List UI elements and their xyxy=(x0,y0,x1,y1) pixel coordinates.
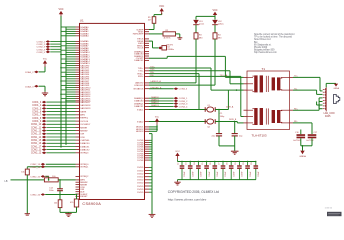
junction TD- net xyxy=(236,89,238,91)
wire bypass bottom rail xyxy=(178,179,256,181)
resistor R8 10k vertical xyxy=(58,200,62,208)
svg-text:C3: C3 xyxy=(186,163,188,165)
ground crystal caps xyxy=(231,150,239,152)
transformer internal left wires xyxy=(247,77,290,123)
svg-text:100nF: 100nF xyxy=(192,171,194,177)
chassis ground arrow xyxy=(334,84,338,87)
wire R11 to IC pin xyxy=(58,179,75,181)
wire C16 stub up xyxy=(300,130,302,135)
svg-text:DVDD: DVDD xyxy=(137,192,144,194)
wire VCC to LED rails xyxy=(214,15,216,16)
wire xtal2 to load cap C13 xyxy=(234,122,236,134)
svg-text:DVDD: DVDD xyxy=(137,167,144,169)
wire branch down to C14 xyxy=(59,180,61,189)
junction R11 / C14 branch xyxy=(59,179,61,181)
svg-text:100nF: 100nF xyxy=(233,171,235,177)
svg-text:100nF: 100nF xyxy=(225,171,227,177)
svg-text:CON1_16: CON1_16 xyxy=(31,143,42,145)
svg-text:DVDD: DVDD xyxy=(137,189,144,191)
svg-text:SDATA4: SDATA4 xyxy=(80,35,89,38)
resistor R3 680 xyxy=(194,33,198,39)
wire DVSS pins to ground bus xyxy=(149,140,152,192)
svg-text:C8: C8 xyxy=(227,163,229,165)
RJ45 pin stubs xyxy=(323,89,325,108)
capacitor C16 xyxy=(297,134,306,136)
svg-text:100nF: 100nF xyxy=(201,171,203,177)
svg-text:4n7/2kV: 4n7/2kV xyxy=(306,140,314,142)
svg-text:DMACK1: DMACK1 xyxy=(80,145,90,148)
wire bypass top rail xyxy=(178,161,256,163)
svg-text:INTRQ3: INTRQ3 xyxy=(80,153,89,155)
svg-text:CS8900A: CS8900A xyxy=(82,202,101,206)
crystal Q2 lower xyxy=(204,119,206,124)
capacitor C11 100n bypass xyxy=(255,162,257,166)
wire R1 to VCC xyxy=(153,15,155,17)
transformer pin stubs left xyxy=(244,77,248,123)
svg-text:CON1_4: CON1_4 xyxy=(32,105,42,107)
svg-text:100nF: 100nF xyxy=(242,171,244,177)
wire xtal1 row right to TD- net riser xyxy=(215,109,228,111)
svg-text:IOCS16: IOCS16 xyxy=(80,121,89,123)
svg-text:VCC: VCC xyxy=(159,5,164,8)
svg-text:RJ45: RJ45 xyxy=(325,116,331,118)
note text block xyxy=(254,33,295,54)
svg-text:CON1_9: CON1_9 xyxy=(32,121,42,123)
svg-text:CON1_11: CON1_11 xyxy=(31,127,42,129)
wire XTAL1 to crystal xyxy=(149,109,207,111)
wire vertical bus B xyxy=(65,27,67,145)
svg-text:DMARQ0: DMARQ0 xyxy=(134,97,144,100)
svg-text:100nF: 100nF xyxy=(184,171,186,177)
capacitor C5 100n bypass xyxy=(206,162,208,166)
svg-text:C4: C4 xyxy=(194,163,196,165)
svg-text:C6: C6 xyxy=(210,163,212,165)
svg-text:HWSLEEP: HWSLEEP xyxy=(133,34,144,36)
svg-text:LINKLED: LINKLED xyxy=(134,85,144,87)
wire CON2_16 to IC RESET xyxy=(45,194,75,196)
svg-text:http://www.olimex.com: http://www.olimex.com xyxy=(254,51,277,54)
svg-text:VCC: VCC xyxy=(212,9,217,12)
svg-text:RXD-: RXD- xyxy=(138,76,144,78)
svg-text:TLA-6T103: TLA-6T103 xyxy=(252,133,267,137)
svg-text:SBHE: SBHE xyxy=(80,111,86,113)
svg-text:CON1_10: CON1_10 xyxy=(31,124,42,126)
wire ELCS bridge to transformer pin1 xyxy=(149,57,167,59)
wire RXD+ down to crystal filter xyxy=(149,73,199,75)
RJ45 remaining pin wires xyxy=(319,101,322,103)
svg-text:U1: U1 xyxy=(80,19,84,23)
svg-text:INTRQ1: INTRQ1 xyxy=(80,167,89,169)
svg-text:C7: C7 xyxy=(218,163,220,165)
junction R7 xyxy=(76,194,78,196)
capacitor C10 100n bypass xyxy=(247,162,249,166)
wire RD- to C17 xyxy=(293,122,312,124)
svg-text:DMARQ1: DMARQ1 xyxy=(151,99,159,102)
wire LINKLED net to LED2 xyxy=(149,84,215,86)
power VCC for LEDs xyxy=(213,12,217,15)
wire RD+ to RJ45 xyxy=(293,109,319,111)
svg-text:DVDD: DVDD xyxy=(137,170,144,172)
svg-text:Bulgaria,tel/fax+359: Bulgaria,tel/fax+359 xyxy=(254,49,275,52)
svg-text:DVDD: DVDD xyxy=(137,180,144,182)
wire R8 to ground rail xyxy=(59,208,61,213)
svg-text:4n7/2kV: 4n7/2kV xyxy=(293,140,301,142)
svg-text:C5: C5 xyxy=(202,163,204,165)
resistor R4 680 xyxy=(213,33,217,39)
svg-text:yellow: yellow xyxy=(218,23,224,25)
svg-text:CON3_4: CON3_4 xyxy=(179,106,188,108)
wire caps to GNDA xyxy=(300,138,302,146)
power VCC bypass rail xyxy=(175,153,179,156)
wire load caps to common ground xyxy=(218,136,220,146)
junction CON2_15 / LB xyxy=(48,179,50,181)
svg-text:http://www.olimex.com/dev: http://www.olimex.com/dev xyxy=(168,198,207,202)
svg-text:DVSS: DVSS xyxy=(137,160,143,162)
svg-text:Note:Olimex Ltd: Note:Olimex Ltd xyxy=(254,38,271,41)
svg-text:green: green xyxy=(199,22,205,25)
wires IC mid-left data/address pins to buses xyxy=(61,41,76,100)
svg-text:CON2_5: CON2_5 xyxy=(36,52,45,54)
wire CON2_13 to IC xyxy=(46,163,76,165)
capacitor C2 100n bypass xyxy=(181,162,183,166)
svg-text:DVDD: DVDD xyxy=(137,183,144,185)
svg-text:LANLED_A: LANLED_A xyxy=(151,80,162,83)
svg-text:TP to be looked at time. The d: TP to be looked at time. The discontd xyxy=(254,36,293,39)
capacitor C14 100n xyxy=(57,188,63,190)
svg-text:VCC: VCC xyxy=(155,116,160,118)
svg-text:C11: C11 xyxy=(251,162,253,165)
svg-text:ELCS: ELCS xyxy=(138,48,144,50)
capacitor C17 xyxy=(308,134,317,136)
svg-text:20MHz: 20MHz xyxy=(167,49,174,51)
svg-text:CON1_13: CON1_13 xyxy=(31,134,42,136)
svg-text:DVDD: DVDD xyxy=(137,177,144,179)
svg-text:CON1_3: CON1_3 xyxy=(32,102,42,104)
wire R6 to ground xyxy=(26,175,28,214)
svg-text:RXD+: RXD+ xyxy=(137,73,144,75)
svg-text:VCC: VCC xyxy=(43,58,48,60)
ground lower-left rail xyxy=(68,212,70,213)
LED LD1 green xyxy=(193,20,199,25)
transformer T1 secondary section windings xyxy=(254,108,257,125)
svg-text:MEMR: MEMR xyxy=(80,127,87,129)
wire LANLED net to LED1 xyxy=(149,82,196,84)
resistor R6 10k vertical xyxy=(26,167,28,169)
svg-text:DMARQ0: DMARQ0 xyxy=(151,96,159,99)
svg-text:DMACK1: DMACK1 xyxy=(134,59,144,62)
svg-text:DMACK1: DMACK1 xyxy=(134,105,144,108)
svg-text:CON1_6: CON1_6 xyxy=(32,112,42,114)
svg-text:CON1_5: CON1_5 xyxy=(32,108,42,110)
svg-text:shhh ltd: shhh ltd xyxy=(325,206,332,209)
svg-text:DVDD: DVDD xyxy=(137,186,144,188)
resistor R1 4k7 pull-up xyxy=(152,17,156,24)
junction AVDD xyxy=(156,126,158,128)
IC right pin stubs xyxy=(145,30,150,193)
svg-text:100nF: 100nF xyxy=(250,171,252,177)
svg-text:CON1_15: CON1_15 xyxy=(31,140,42,142)
svg-text:CON1_7: CON1_7 xyxy=(32,115,42,117)
wire R7 top xyxy=(76,195,78,200)
svg-text:DMARQ1: DMARQ1 xyxy=(134,102,144,105)
wire LD1 to R3 xyxy=(195,25,197,33)
ground at R2 xyxy=(177,37,182,39)
transformer T1 primary section windings xyxy=(254,75,257,92)
svg-text:4k7/1%: 4k7/1% xyxy=(164,38,171,40)
svg-text:SADDR17: SADDR17 xyxy=(80,101,91,104)
wire LD2 to R4 xyxy=(214,25,216,33)
svg-text:CON2_12: CON2_12 xyxy=(31,153,42,155)
svg-text:XTAL2: XTAL2 xyxy=(137,120,144,123)
svg-text:CON3_5: CON3_5 xyxy=(179,89,188,91)
ground under R6 xyxy=(25,213,30,215)
oscillator X2 20MHz xyxy=(159,47,162,50)
wire CON2_14 to IC xyxy=(27,166,75,168)
svg-text:CON2_16: CON2_16 xyxy=(30,195,41,197)
junction xtal1 load cap xyxy=(218,109,220,111)
capacitor C3 100n bypass xyxy=(189,162,191,166)
resistor R11 100 horizontal xyxy=(44,178,58,182)
svg-text:DMACK2: DMACK2 xyxy=(80,148,90,151)
svg-text:DMACK0: DMACK0 xyxy=(80,142,90,145)
svg-text:C10: C10 xyxy=(243,162,245,165)
svg-text:IOR: IOR xyxy=(80,134,84,136)
svg-text:GNDA: GNDA xyxy=(299,155,306,158)
wire TD+ to RJ45 xyxy=(293,76,320,78)
svg-text:Note:Re correct torroid of the: Note:Re correct torroid of the transform… xyxy=(254,33,295,36)
svg-text:VCC: VCC xyxy=(175,151,180,153)
svg-text:COAX_2: COAX_2 xyxy=(25,71,34,74)
svg-text:100nF: 100nF xyxy=(258,171,260,177)
wires IC top-left pins to buses xyxy=(61,27,76,36)
IC left pin names xyxy=(80,26,91,198)
wire VCC stem down to bus xyxy=(60,16,62,148)
ground symbol right of IC xyxy=(149,213,156,215)
capacitor C12 22p xyxy=(216,133,222,135)
svg-text:C9: C9 xyxy=(235,163,237,165)
wire AVSS row to ground bus xyxy=(149,133,152,135)
svg-text:GNDA: GNDA xyxy=(333,87,339,90)
junction dots on buses in flag zone xyxy=(60,101,67,141)
capacitor C8 100n bypass xyxy=(230,162,232,166)
svg-text:CON3_1: CON3_1 xyxy=(179,98,188,100)
capacitor C4 100n bypass xyxy=(197,162,199,166)
svg-text:24R9_A: 24R9_A xyxy=(226,105,234,108)
wire R4 down to LINKLED net xyxy=(214,39,216,85)
LED LD2 yellow xyxy=(212,20,218,25)
svg-text:LB: LB xyxy=(5,180,8,183)
svg-text:DMARQ3: DMARQ3 xyxy=(151,104,159,107)
wire ground bus right of IC xyxy=(151,134,153,215)
wire R3 down to LANLED net xyxy=(195,39,197,83)
svg-text:DMARQ2: DMARQ2 xyxy=(151,101,159,104)
wire XTAL2 to crystal xyxy=(149,121,207,123)
wire RXD- to transformer center tap 2 xyxy=(149,75,241,77)
wires DMA group with CON3 flags xyxy=(149,97,174,99)
svg-text:CON1_17: CON1_17 xyxy=(31,146,42,148)
svg-text:SADDR18: SADDR18 xyxy=(80,104,91,107)
IC U1 CS8900A body xyxy=(80,23,145,199)
svg-text:EECFG: EECFG xyxy=(167,45,174,47)
junction C14 / CON2_16 xyxy=(59,194,61,196)
svg-text:AVDD3: AVDD3 xyxy=(136,130,144,133)
wire R7 bottom to ground rail xyxy=(76,207,78,212)
wire TD- to RJ45 xyxy=(293,89,317,91)
wire CON2_15 down to LB net xyxy=(45,175,48,177)
svg-text:TXO+_A: TXO+_A xyxy=(220,74,228,77)
svg-text:CON3_2: CON3_2 xyxy=(179,101,188,103)
RJ45 connector coil pins xyxy=(324,87,327,111)
capacitor C9 100n bypass xyxy=(238,162,240,166)
svg-text:CON2_11: CON2_11 xyxy=(31,150,42,152)
junction xtal2 load cap xyxy=(234,121,236,123)
svg-text:RESET: RESET xyxy=(80,196,88,198)
watermark dark stamp xyxy=(327,212,342,216)
transformer pin stubs right xyxy=(290,77,294,123)
svg-text:100nF: 100nF xyxy=(209,171,211,177)
junction dots on buses xyxy=(60,41,67,102)
svg-text:XTAL1: XTAL1 xyxy=(137,108,144,111)
RJ45 jack icon xyxy=(334,94,340,103)
svg-text:COPYRIGHTED 2005, OLIMEX Ltd: COPYRIGHTED 2005, OLIMEX Ltd xyxy=(168,190,219,194)
svg-text:CON3_3: CON3_3 xyxy=(179,104,188,106)
wire TXD- to transformer center tap xyxy=(149,70,230,72)
svg-text:CON2_14: CON2_14 xyxy=(30,167,41,169)
svg-text:DMACK0: DMACK0 xyxy=(134,100,144,103)
svg-text:CON1_8: CON1_8 xyxy=(32,118,42,120)
ground GNDA arrow xyxy=(300,151,304,155)
svg-text:CON2_15: CON2_15 xyxy=(30,176,41,178)
svg-text:COAX_3: COAX_3 xyxy=(25,85,34,88)
svg-text:CON1_12: CON1_12 xyxy=(31,131,42,133)
svg-text:INTRQ2: INTRQ2 xyxy=(80,176,89,178)
svg-text:CHIPSEL: CHIPSEL xyxy=(80,140,90,142)
wire BSTATUS with flag xyxy=(149,88,174,90)
wire RJ45 shield to chassis xyxy=(325,83,327,87)
power VCC top-left xyxy=(59,11,63,14)
svg-text:T1: T1 xyxy=(262,67,266,71)
wire EESK to X2 xyxy=(149,40,153,42)
ground for bypass rail xyxy=(177,180,179,181)
capacitor C6 100n bypass xyxy=(214,162,216,166)
wire TXD+ to transformer pin3 xyxy=(149,67,211,69)
svg-text:DVDD: DVDD xyxy=(137,173,144,175)
svg-text:TXD+: TXD+ xyxy=(138,68,144,70)
transformer T1 box xyxy=(247,71,290,130)
wire ground rail lower-left xyxy=(60,211,77,213)
junction GNDA xyxy=(302,145,304,147)
capacitor C7 100n bypass xyxy=(222,162,224,166)
svg-text:CON1_14: CON1_14 xyxy=(31,137,42,139)
svg-text:IOCHRDY: IOCHRDY xyxy=(80,124,91,126)
power VCC above R1 xyxy=(160,8,164,11)
svg-text:AEN: AEN xyxy=(80,114,85,117)
capacitor C13 22p xyxy=(232,133,238,135)
power VCC analog pins xyxy=(149,126,157,128)
wire xtal1 to load cap C12 xyxy=(218,110,220,134)
wire C14 down to R8 xyxy=(59,191,61,200)
svg-text:SADDR19: SADDR19 xyxy=(80,107,91,110)
wire LB to R11 xyxy=(11,179,45,181)
svg-text:VCC: VCC xyxy=(58,8,63,11)
svg-text:24R9_B: 24R9_B xyxy=(229,119,237,121)
svg-text:REFRQ: REFRQ xyxy=(80,118,88,120)
wire SLEEP pin to R1 xyxy=(149,29,154,31)
wire xtal2 row to transformer pin6 xyxy=(215,121,237,123)
resistor R2 4k7 1% to ground xyxy=(149,33,163,35)
svg-text:C2: C2 xyxy=(177,163,179,165)
IC left pin stubs xyxy=(76,27,80,196)
svg-text:BSTATUS: BSTATUS xyxy=(134,88,144,91)
svg-text:MEMW: MEMW xyxy=(80,130,88,132)
svg-text:89 Slavjanska st.: 89 Slavjanska st. xyxy=(254,43,272,46)
svg-text:100nF: 100nF xyxy=(217,171,219,177)
svg-text:LAN_CON: LAN_CON xyxy=(324,112,335,115)
ground below COAX_3 xyxy=(44,92,46,93)
IC right pin names xyxy=(133,29,144,194)
resistor R7 47k vertical xyxy=(74,199,78,207)
crystal Q1 20MHz xyxy=(204,107,206,112)
svg-text:TXD-: TXD- xyxy=(138,71,143,73)
